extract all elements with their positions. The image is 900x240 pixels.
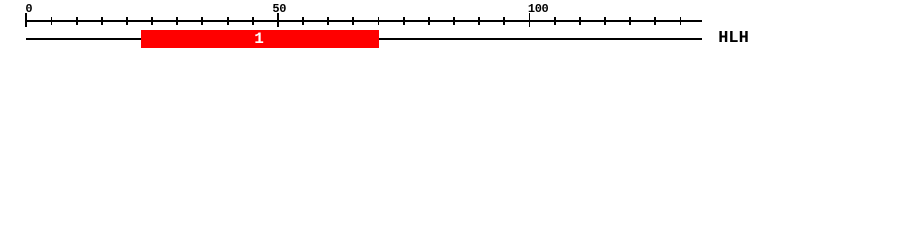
ruler axis line xyxy=(26,20,703,22)
minor tick 65 xyxy=(352,17,354,25)
ruler label 50 xyxy=(272,2,286,16)
minor tick 95 xyxy=(503,17,505,25)
minor tick 120 xyxy=(629,17,631,25)
minor tick 55 xyxy=(302,17,304,25)
ruler label 0 xyxy=(25,2,32,16)
minor tick 125 xyxy=(654,17,656,25)
minor tick 80 xyxy=(428,17,430,25)
minor tick 130 xyxy=(680,17,682,25)
minor tick 70 xyxy=(378,17,380,25)
major tick 0 xyxy=(25,13,27,27)
minor tick 85 xyxy=(453,17,455,25)
minor tick 15 xyxy=(101,17,103,25)
minor tick 115 xyxy=(604,17,606,25)
minor tick 5 xyxy=(51,17,53,25)
minor tick 45 xyxy=(252,17,254,25)
minor tick 110 xyxy=(579,17,581,25)
minor tick 25 xyxy=(151,17,153,25)
minor tick 20 xyxy=(126,17,128,25)
sequence line xyxy=(26,38,703,40)
minor tick 30 xyxy=(176,17,178,25)
ruler label 100 xyxy=(528,2,548,16)
domain bar label 1 xyxy=(254,30,264,48)
minor tick 35 xyxy=(201,17,203,25)
minor tick 90 xyxy=(478,17,480,25)
sequence name HLH xyxy=(718,29,749,48)
minor tick 10 xyxy=(76,17,78,25)
major tick 100 xyxy=(529,13,531,27)
minor tick 40 xyxy=(227,17,229,25)
minor tick 60 xyxy=(327,17,329,25)
domain bar 1 (red) xyxy=(141,30,379,47)
minor tick 75 xyxy=(403,17,405,25)
major tick 50 xyxy=(277,13,279,27)
minor tick 105 xyxy=(554,17,556,25)
